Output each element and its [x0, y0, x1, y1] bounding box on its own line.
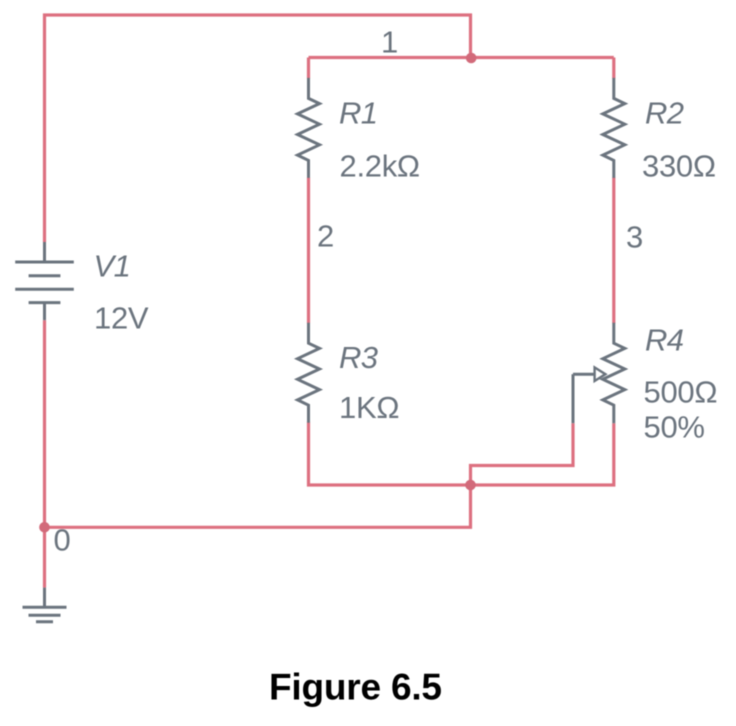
potentiometer R4 value 500Ω: [644, 374, 718, 409]
ground: [23, 588, 67, 622]
resistor R1: [298, 78, 320, 178]
node 3 label: [626, 220, 643, 255]
wire battery - down to ground: [43, 320, 46, 587]
battery V1: [15, 242, 74, 320]
resistor R2: [603, 78, 625, 178]
node 1 label: [381, 25, 398, 60]
junction node 0: [39, 522, 50, 533]
junction bottom rail: [465, 480, 476, 491]
svg-text:12V: 12V: [94, 301, 149, 336]
svg-text:R1: R1: [339, 96, 377, 131]
wire net 3 R2 bottom to R4 top: [612, 177, 615, 323]
resistor R3: [298, 323, 320, 423]
battery V1 value 12V: [94, 301, 149, 336]
resistor R1 value 2.2kΩ: [340, 148, 420, 183]
wire battery + up and top rail to node 1 drop: [45, 15, 471, 242]
svg-text:330Ω: 330Ω: [642, 148, 716, 183]
svg-text:R4: R4: [645, 323, 684, 358]
junction node 1: [466, 53, 477, 64]
potentiometer R4: [573, 323, 625, 424]
svg-text:2: 2: [317, 218, 334, 253]
wire node 0 rail to bottom junction: [45, 485, 471, 527]
battery V1 reference label: [94, 249, 131, 284]
svg-text:V1: V1: [94, 249, 131, 284]
wire net 2 R1 bottom to R3 top: [307, 177, 310, 323]
svg-text:Figure 6.5: Figure 6.5: [269, 667, 442, 708]
potentiometer R4 setting 50%: [644, 409, 705, 444]
svg-text:500Ω: 500Ω: [644, 374, 718, 409]
resistor R3 reference label: [339, 340, 378, 375]
wire node 1 to R2 top: [612, 58, 615, 79]
svg-text:3: 3: [626, 220, 643, 255]
svg-text:R2: R2: [645, 96, 684, 131]
resistor R2 value 330Ω: [642, 148, 716, 183]
svg-text:50%: 50%: [644, 409, 705, 444]
svg-text:1KΩ: 1KΩ: [339, 390, 399, 425]
node 2 label: [317, 218, 334, 253]
resistor R1 reference label: [339, 96, 377, 131]
wire node 1 horizontal rail R1 to R2: [309, 56, 614, 59]
wire R4 wiper to bottom junction: [471, 423, 574, 485]
resistor R3 value 1KΩ: [339, 390, 399, 425]
wire bottom rail R3 bottom to R4 bottom: [309, 422, 614, 485]
resistor R2 reference label: [645, 96, 684, 131]
wire node 1 to R1 top: [307, 58, 310, 79]
svg-text:R3: R3: [339, 340, 378, 375]
node 0 label: [54, 523, 71, 558]
potentiometer R4 reference label: [645, 323, 684, 358]
svg-text:2.2kΩ: 2.2kΩ: [340, 148, 420, 183]
caption Figure 6.5: [269, 667, 442, 708]
svg-text:0: 0: [54, 523, 71, 558]
svg-text:1: 1: [381, 25, 398, 60]
